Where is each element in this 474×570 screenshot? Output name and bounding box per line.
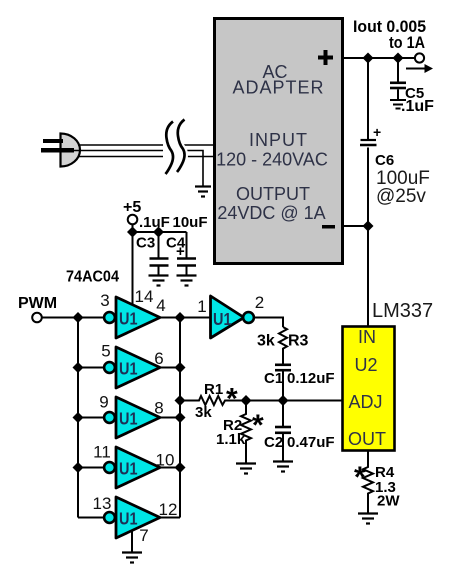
node junction in5 [73,362,84,373]
svg-text:2W: 2W [377,493,400,510]
svg-text:U1: U1 [119,459,138,479]
svg-text:74AC04: 74AC04 [66,269,119,286]
resistor R3 [279,327,287,364]
svg-text:4: 4 [156,296,165,315]
svg-text:11: 11 [93,443,111,462]
wire to LM337 IN [367,226,369,326]
svg-text:R1: R1 [204,381,223,398]
svg-text:24VDC @ 1A: 24VDC @ 1A [217,203,325,223]
node junction R1 tap [175,395,186,406]
ground C4 [177,276,197,286]
node junction + C5 [393,53,404,64]
terminal +5 [128,215,138,225]
inverter U1b [104,347,160,388]
svg-text:U2: U2 [354,355,377,375]
svg-text:U1: U1 [119,409,138,429]
regulator U2 LM337 box [343,327,395,451]
svg-text:C1: C1 [264,370,283,387]
svg-text:@25v: @25v [376,186,426,207]
node junction R2 [241,395,252,406]
svg-text:OUT: OUT [348,429,386,449]
svg-text:1: 1 [197,297,206,316]
wire PWM [42,317,104,319]
capacitor C1 [275,365,291,401]
svg-text:U1: U1 [213,309,232,329]
svg-text:13: 13 [93,494,112,513]
svg-text:3: 3 [100,291,109,310]
ground C2 [273,462,293,472]
svg-text:5: 5 [101,342,110,361]
svg-text:C3: C3 [136,235,155,252]
ground pin7 [122,553,142,563]
ground C5 [390,100,406,109]
svg-text:OUTPUT: OUTPUT [236,184,310,204]
label 3k R3 [257,333,309,350]
svg-text:C2: C2 [264,434,283,451]
capacitor C5 [390,58,406,100]
svg-text:2: 2 [255,293,264,312]
wire minus output [343,225,368,227]
node junction in11 [73,462,84,473]
svg-text:1.1k: 1.1k [216,431,246,448]
AC adapter box [215,19,343,264]
svg-text:LM337: LM337 [372,300,433,322]
wire pin7 [131,530,133,552]
inverter U1a [104,297,160,338]
svg-text:U1: U1 [119,359,138,379]
svg-text:10uF: 10uF [173,214,208,231]
inverter U1d [104,447,160,488]
inverter U1e [104,497,160,538]
node junction out6 [175,362,186,373]
node junction out8 [175,412,186,423]
inverter U1f buffer [211,296,254,338]
inverter U1c [104,397,160,438]
ground (mains earth) [195,187,211,197]
svg-text:U1: U1 [119,509,138,529]
node junction PWM [73,312,84,323]
arrow output current [406,64,433,73]
cable break squiggle [166,120,185,175]
svg-text:R3: R3 [288,333,309,350]
svg-text:*: * [354,461,366,494]
svg-text:*: * [252,409,264,442]
svg-text:.1uF: .1uF [139,214,170,231]
node junction C1/C2/ADJ [278,395,289,406]
wire middle mains (earth) [74,151,203,187]
capacitor C4 electrolytic [177,259,196,276]
ground R2 [236,464,256,474]
svg-text:3k: 3k [257,333,275,350]
svg-text:0.12uF: 0.12uF [287,370,335,387]
ground R4 [358,514,378,524]
node junction C3 [153,227,164,238]
wire top mains [78,144,213,146]
svg-text:3k: 3k [195,404,212,421]
label Iout [353,17,426,52]
label C1 0.12uF [264,370,335,387]
input bus wire [78,318,104,518]
svg-text:ADJ: ADJ [348,392,382,412]
wire +24V output [343,57,415,59]
AC adapter text [216,62,328,223]
U2 pin names [348,327,386,449]
output terminal Iout [415,53,424,62]
plus terminal mark [318,50,333,65]
node junction minus [363,221,374,232]
svg-text:14: 14 [135,287,154,306]
resistor R2 [241,401,251,464]
ground C3 [149,276,169,286]
terminal PWM [32,313,42,323]
wire pin2 to R3 [254,318,283,328]
node junction out4 [175,312,186,323]
svg-text:C6: C6 [375,152,394,169]
capacitor C2 [275,401,291,462]
wire +5 rail [133,225,187,308]
svg-text:PWM: PWM [18,295,57,312]
svg-text:*: * [226,383,238,416]
capacitor C3 [150,259,169,276]
minus terminal mark [322,225,335,229]
svg-text:0.47uF: 0.47uF [287,434,335,451]
svg-text:9: 9 [99,393,108,412]
svg-text:INPUT: INPUT [249,130,308,150]
svg-text:IN: IN [358,327,376,347]
resistor R4 [363,451,373,513]
label C2 0.47uF [264,434,335,451]
svg-text:+: + [373,124,381,140]
AC plug P1 [41,134,80,167]
capacitor C6 electrolytic [360,58,381,226]
node junction in9 [73,412,84,423]
svg-text:.1uF: .1uF [401,98,434,115]
svg-text:7: 7 [139,526,148,545]
wire to buffer input [180,317,210,319]
node junction +5 [127,227,138,238]
output bus wire [160,318,180,518]
node junction + C6 [363,53,374,64]
svg-text:U1: U1 [119,309,138,329]
svg-text:to 1A: to 1A [389,33,425,52]
node junction out10 [175,462,186,473]
svg-text:120 - 240VAC: 120 - 240VAC [216,150,328,170]
svg-text:+: + [176,243,185,260]
svg-text:8: 8 [154,399,163,418]
svg-text:ADAPTER: ADAPTER [232,78,324,98]
resistor R1 + ADJ wire [180,396,342,405]
wire bottom mains [78,156,213,158]
svg-text:6: 6 [154,349,163,368]
svg-text:12: 12 [159,500,178,519]
